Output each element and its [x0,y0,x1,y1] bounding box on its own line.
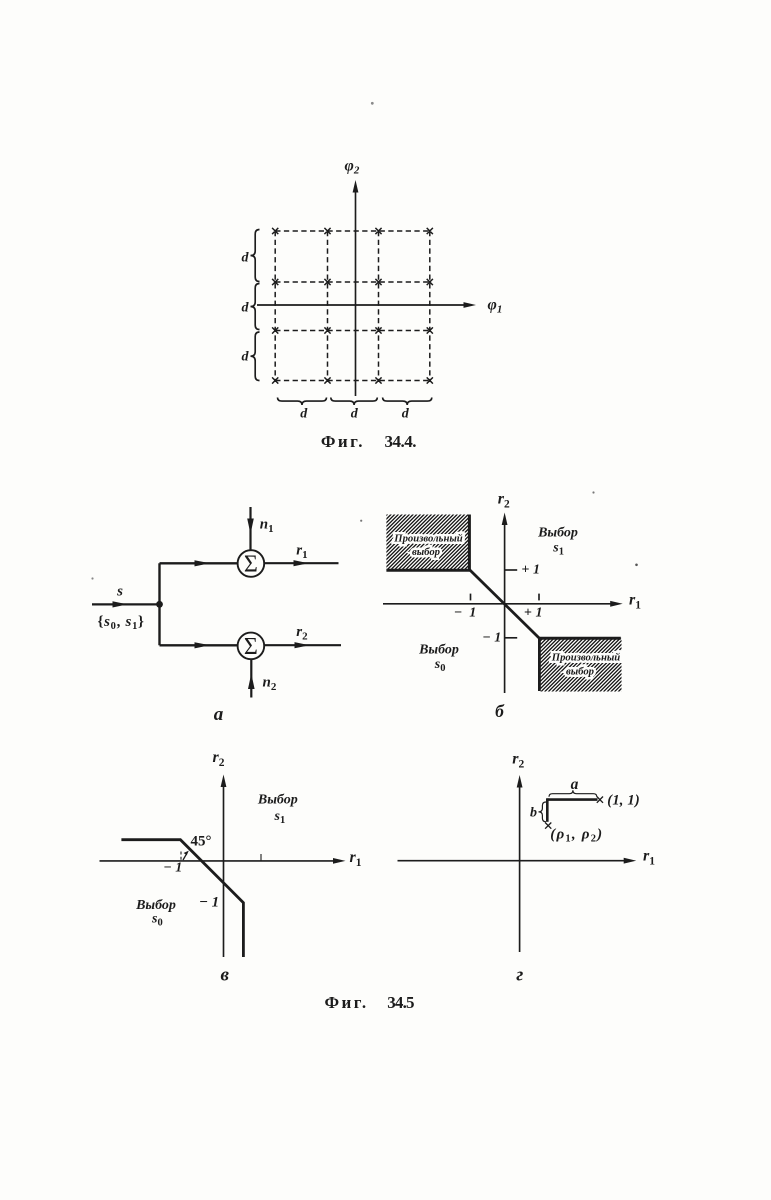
svg-text:Σ: Σ [244,552,258,578]
svg-text:d: d [300,407,308,422]
brace d bottom 1 [278,398,327,406]
svg-text:Фиг.: Фиг. [325,993,369,1012]
border bottom of hatched TL [386,569,471,572]
speck 4 [91,577,93,579]
label Proizvolny vybor BR [551,652,621,678]
wire input s [92,601,160,607]
svg-text:a: a [571,776,579,793]
svg-text:Выбор: Выбор [418,643,459,658]
cross mark point (rho1,rho2) [545,823,551,829]
svg-text:d: d [242,300,250,315]
tick +1 on r1 axis [538,594,540,601]
svg-text:Выбор: Выбор [257,793,298,808]
hatched region arbitrary choice bottom-right [539,638,622,692]
svg-text:Σ: Σ [244,634,258,660]
svg-text:34.4.: 34.4. [385,432,417,451]
brace d left 1 [251,230,260,282]
svg-text:выбор: выбор [412,546,441,558]
border right of hatched TL [468,515,471,571]
svg-text:Фиг.: Фиг. [321,432,365,451]
svg-text:b: b [530,806,537,821]
label Proizvolny vybor TL [393,533,463,559]
leader dashed line 45deg [180,852,182,861]
svg-text:− 1: − 1 [483,631,501,646]
svg-text:а: а [214,704,224,725]
wire riser [158,563,160,645]
brace d bottom 2 [331,398,378,406]
svg-text:d: d [351,407,359,422]
segment a horizontal thick [547,798,597,801]
axis phi1 horizontal [257,302,476,308]
leader arrow 45deg [183,851,189,860]
tick +1 on r2 axis [505,569,518,571]
wire output r1 [264,560,338,566]
speck 1 [371,102,374,105]
decision boundary diagonal [470,570,539,638]
svg-text:+ 1: + 1 [524,606,542,621]
svg-text:d: d [402,407,410,422]
svg-text:Произвольный: Произвольный [393,533,463,545]
svg-text:выбор: выбор [566,666,595,678]
cross mark point (1,1) [597,797,603,803]
axis r1 horizontal panel g [398,858,637,864]
speck 2 [592,491,594,493]
axis r1 horizontal panel b [383,601,623,607]
brace a [549,790,597,797]
svg-text:{s0, s1}: {s0, s1} [98,614,145,632]
grid cross marks (signal points) [272,228,433,384]
brace b [539,802,547,822]
svg-text:34.5: 34.5 [387,993,414,1012]
svg-text:б: б [495,701,505,721]
speck 3 [635,564,638,567]
decision boundary panel v [121,840,243,957]
wire to summer 2 [160,642,238,648]
svg-text:Выбор: Выбор [537,526,578,541]
svg-text:г: г [516,965,523,986]
border top of hatched BR [539,637,621,640]
axis r2 vertical panel b [502,513,508,694]
svg-text:d: d [242,349,250,364]
svg-text:− 1: − 1 [199,895,219,911]
wire n2 input [248,660,255,698]
svg-text:Произвольный: Произвольный [551,652,621,664]
brace d left 2 [251,284,260,330]
svg-text:+ 1: + 1 [522,563,540,578]
axis r2 vertical panel g [517,775,523,952]
grid vertical dashed lines [275,231,430,381]
speck 5 [360,520,362,522]
grid horizontal dashed lines [275,231,430,381]
wire output r2 [264,642,341,648]
tick -1 on r2 axis [505,637,518,639]
svg-text:− 1: − 1 [164,861,182,876]
hatched region arbitrary choice top-left [386,515,470,571]
svg-text:45°: 45° [191,834,212,850]
axis r2 vertical panel v [221,775,227,958]
svg-text:d: d [242,251,250,266]
summer U2 [238,633,265,660]
svg-text:в: в [221,965,230,986]
tick -1 on r1 axis [470,594,472,601]
svg-text:s: s [116,584,123,600]
tick +1 on r1 panel v [260,854,262,861]
junction node [156,601,163,608]
wire n1 input [247,507,254,550]
segment b vertical thick [546,798,549,822]
summer U1 [238,550,265,577]
border left of hatched BR [538,638,541,691]
axis r1 horizontal panel v [100,858,346,864]
brace d left 3 [251,332,260,381]
brace d bottom 3 [383,398,432,406]
svg-text:− 1: − 1 [454,606,476,621]
wire to summer 1 [160,560,238,566]
svg-text:(1, 1): (1, 1) [607,793,640,809]
axis phi2 vertical [353,180,359,396]
